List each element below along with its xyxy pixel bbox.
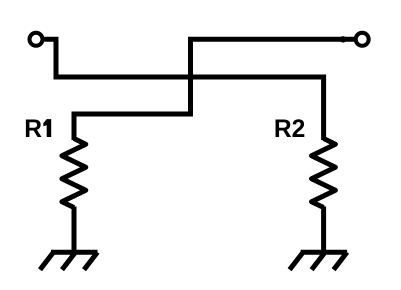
wire R2 to ground [321,207,326,253]
wire J1 to R2 top (crossover net) [44,39,323,140]
ground GND2 [290,252,348,270]
resistor R1 [62,139,86,208]
terminal J2 (top-right output) [356,33,369,46]
svg-text:R: R [24,116,42,143]
pin dot on J2 wire [340,36,346,42]
ground GND1 [40,252,98,270]
svg-text:R2: R2 [274,116,305,143]
terminal J1 (top-left input) [30,33,43,46]
wire R1 to ground [72,207,77,253]
wire J2 to R1 top (crossover net) [74,39,354,140]
resistor R2 [312,139,336,208]
